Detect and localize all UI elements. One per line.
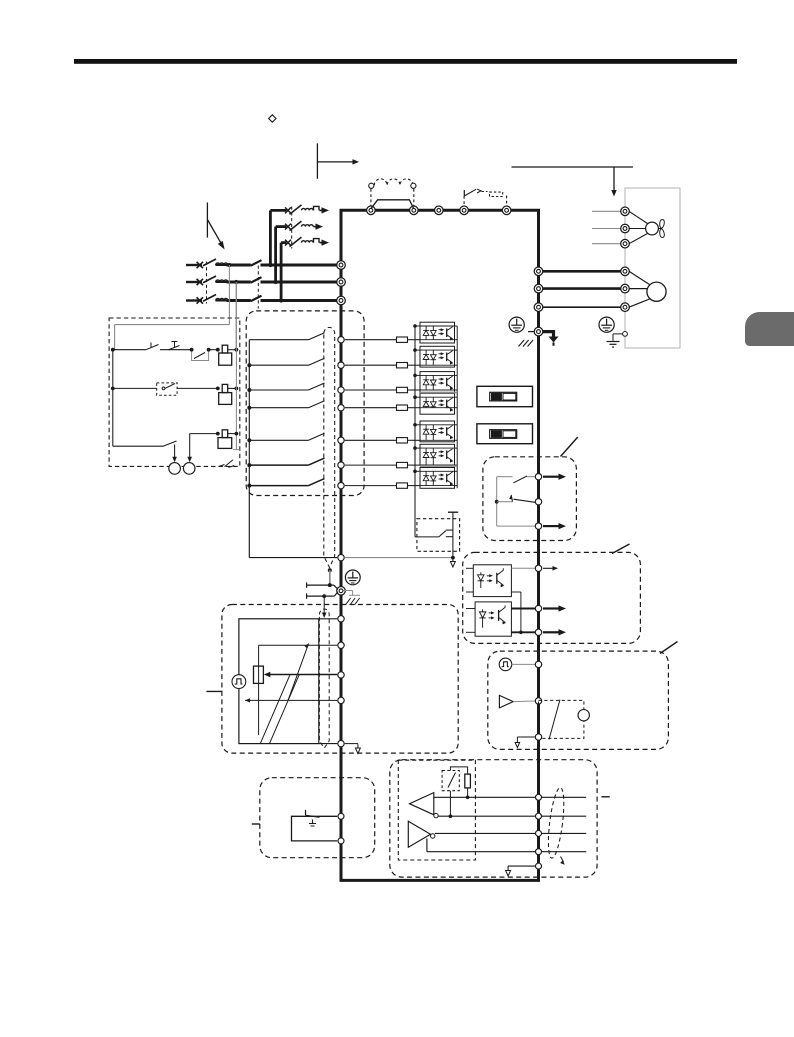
memobus leader [601, 796, 609, 798]
opto PC2 rail stubs [415, 349, 420, 351]
input resistor R6 [345, 464, 397, 466]
shield twisted pair [307, 584, 334, 586]
junction phase2 to control drop [234, 280, 238, 284]
opto PC4 rail stubs [415, 396, 420, 398]
terminal S2 [338, 362, 344, 368]
memobus comm dashed group box [390, 760, 597, 877]
fan supply stub wires [592, 210, 625, 212]
sequence row2 wire [113, 387, 157, 389]
opto PC5 rail stubs [415, 424, 420, 426]
pulse train input symbol [232, 675, 246, 689]
terminal S1 [338, 337, 344, 343]
drive ground screw symbol [509, 317, 524, 332]
safe disable leader [252, 823, 260, 825]
terminal +2 [410, 206, 419, 215]
analog leader line [206, 690, 222, 692]
photocoupler P2 wires [466, 608, 475, 610]
comm shield arrow [561, 857, 564, 863]
motor wire U [539, 270, 626, 273]
opto bias rail [414, 326, 416, 537]
branch 2 arrow [314, 226, 317, 228]
junction S7 rail [247, 484, 251, 488]
comm line R- [438, 815, 586, 817]
opto PC6 rail stubs [415, 447, 420, 449]
drive ground hatch [519, 340, 525, 347]
terminal HC [338, 813, 344, 819]
DIP switch S2 [477, 424, 533, 444]
phase L1 wire to drive terminal [261, 264, 338, 267]
terminal B1 [460, 206, 469, 215]
terminal S+ [536, 830, 542, 836]
motor enclosure [625, 188, 680, 348]
photocoupler output dashed group box [463, 552, 641, 643]
pulse monitor wire [512, 663, 535, 665]
motor ground screw symbol [599, 317, 614, 332]
phase L3 wire to drive terminal [261, 299, 338, 302]
braking resistor option leads [463, 196, 465, 206]
branch 1 arrow [320, 209, 323, 211]
terminal S4 [338, 405, 344, 411]
opto PC7 rail stubs [415, 470, 420, 472]
sequence holding contact [192, 352, 209, 361]
termination switch blade [448, 773, 456, 788]
pulse monitor symbol [499, 658, 512, 671]
shield terminal ground tail [344, 590, 353, 592]
digital input S3 wire [249, 389, 308, 391]
analog monitor buffer [499, 695, 513, 708]
drive terminal U/T1 [534, 267, 543, 276]
terminal S6 [338, 462, 344, 468]
callout leader long rule with down arrow [512, 166, 634, 168]
analog slash 1 [260, 675, 290, 744]
potentiometer wiper arrow [268, 674, 337, 676]
external sequence dashed box [109, 318, 240, 466]
phase L1 wire to contactor [227, 264, 251, 267]
drive terminal W/T3 [534, 303, 543, 312]
drive enclosure box [341, 210, 539, 880]
branch 1 coil [302, 208, 314, 210]
safe disable jumper link [305, 810, 307, 815]
branch 1 feed wire [269, 210, 272, 265]
relay MC arrow [543, 525, 559, 527]
sequence MC coil 3 [222, 430, 228, 438]
photocoupler P2 arrow [543, 607, 559, 609]
relay NC contact blade [495, 500, 499, 504]
safe disable jumper bracket [292, 816, 338, 841]
terminal T/L3 [337, 296, 346, 305]
phase L1 contactor blade [251, 260, 262, 265]
analog A3 wire [245, 698, 250, 702]
opto-coupler PC3 [420, 372, 455, 393]
opto stack divider gray B [420, 465, 457, 467]
terminal S7 [338, 482, 344, 488]
terminal AC2 [338, 740, 344, 746]
terminal R- [536, 813, 542, 819]
multi-function input dashed group box [246, 311, 364, 496]
opto-coupler PC4 [420, 393, 455, 414]
braking resistor thermal switch [463, 190, 465, 196]
digital input S7 wire [249, 485, 308, 487]
phase L3 contactor blade [251, 296, 262, 301]
MCCB gang dashed link [206, 262, 208, 304]
monitor output dashed group box [488, 651, 669, 749]
digital input S5 switch blade [309, 433, 325, 440]
callout leader MCCB diagonal arrow [206, 203, 208, 238]
terminal S5 [338, 437, 344, 443]
sequence coil rail [235, 282, 237, 450]
input resistor R2 [345, 364, 397, 366]
digital input S3 switch blade [309, 383, 325, 390]
opto PC3 rail stubs [415, 374, 420, 376]
branch 2 switch blade [290, 221, 302, 231]
sequence MC coil 1 [222, 345, 228, 353]
note marker diamond [269, 115, 276, 122]
callout leader T-arrow [316, 143, 318, 179]
terminal AM [535, 698, 541, 704]
sequence row3 wire [190, 433, 218, 435]
analog cable capsule [319, 609, 329, 748]
opto stack divider gray A [420, 392, 457, 394]
terminal S- [536, 849, 542, 855]
phase L2 contactor blade [251, 277, 262, 282]
termination wiring [450, 767, 467, 774]
frequency meter blade [549, 700, 560, 740]
motor wire V [539, 287, 626, 290]
photocoupler P1 wires [466, 567, 473, 569]
branch gang dashed link [291, 207, 293, 249]
relay output leader [561, 437, 578, 457]
terminal R+ [536, 794, 542, 800]
digital input S6 wire [249, 464, 308, 466]
phase L3 wire to contactor [227, 299, 251, 302]
comm send buffer [408, 821, 430, 847]
relay NO contact blade [514, 476, 528, 483]
photocoupler P1 unit [473, 565, 511, 597]
phase L1 reactor coil [216, 263, 228, 265]
terminal MA [535, 474, 541, 480]
24V supply tap [448, 511, 458, 513]
control power drop wire from phase2 [235, 282, 237, 350]
junction phase3 to branch feed [279, 298, 283, 302]
motor terminal 2 [621, 284, 630, 293]
DC reactor option coil [374, 179, 413, 185]
branch 2 coil [302, 225, 314, 227]
termination resistor [465, 774, 471, 788]
monitor output leader [660, 642, 678, 654]
terminal PC [535, 629, 541, 635]
sequence MC coil 2 [222, 384, 228, 392]
junction S2 rail [247, 363, 251, 367]
motor ground wire [623, 332, 628, 337]
branch 3 fuse x-mark [285, 240, 291, 246]
analog block frame [239, 619, 319, 744]
terminal IG [536, 863, 542, 869]
digital input S1 switch blade [309, 333, 325, 340]
DIP switch S1 [477, 386, 533, 406]
DC reactor option dashed leads [370, 189, 372, 206]
photocoupler P2 unit [475, 602, 511, 636]
analog common bottom wire [319, 743, 337, 745]
terminal P1 [535, 565, 541, 571]
comm cable shield ellipse [545, 787, 566, 859]
jumper bar +1/+2 [371, 200, 414, 209]
thermal relay contact dashed box [157, 383, 177, 395]
phase L3 reactor coil [216, 299, 228, 301]
comm ground wire [508, 865, 535, 867]
terminal AC monitor [535, 734, 541, 740]
junction phase1 to control drop [227, 263, 231, 267]
terminal minus [435, 206, 444, 215]
analog slash 2 [270, 675, 300, 744]
comm receive buffer [410, 793, 434, 815]
fan terminal 1 [621, 207, 630, 216]
phase L2 input wire [186, 281, 202, 283]
drive terminal V/T2 [534, 284, 543, 293]
analog input dashed group box [222, 605, 458, 754]
input cable shield capsule [324, 327, 335, 567]
input resistor R4 [345, 407, 397, 409]
SC wire inside drive [345, 557, 453, 559]
branch 2 fuse x-mark [285, 224, 291, 230]
monitor common wire [517, 736, 535, 738]
input resistor R3 [345, 389, 397, 391]
branch 1 pulse hump [314, 206, 320, 210]
sink-source select dashed box [417, 519, 460, 552]
motor terminal 3 [621, 303, 630, 312]
potentiometer body [254, 666, 264, 683]
relay MA arrow [543, 476, 559, 478]
relay output dashed group box [483, 457, 577, 541]
terminal MP [535, 661, 541, 667]
opto output rail [456, 326, 458, 488]
DC reactor lead circles [369, 183, 374, 188]
input resistor R1 [345, 339, 397, 341]
analog A1 wire [259, 644, 338, 646]
sequence off button [146, 345, 159, 350]
control power drop wire from phase1 [228, 265, 230, 325]
terminal A1 [338, 642, 344, 648]
junction S4 rail [247, 406, 251, 410]
terminal S3 [338, 387, 344, 393]
digital input S6 switch blade [309, 458, 325, 465]
termination switch dashed box [442, 771, 459, 791]
digital input SC common wire [249, 557, 337, 559]
run indicator lamp 2 [183, 463, 195, 475]
analog shield drain [345, 743, 358, 745]
digital input S4 wire [249, 407, 308, 409]
input resistor R5 [345, 439, 397, 441]
digital input common rail [248, 340, 250, 558]
comm line S+ [435, 832, 586, 834]
branch 1 fuse x-mark [285, 207, 291, 213]
contactor gang dashed link [257, 266, 259, 309]
analog slash 3 [288, 644, 309, 701]
branch 3 coil [302, 241, 314, 243]
branch 3 arrow [320, 242, 323, 244]
junction phase1 to branch feed [268, 263, 272, 267]
frequency meter dashed box [539, 700, 584, 738]
sequence lamp branch [113, 445, 163, 447]
comm interface dashed box [398, 760, 475, 860]
digital input S1 wire [249, 339, 308, 341]
terminal A2 [338, 672, 344, 678]
motor terminal 1 [621, 267, 630, 276]
terminal H1 [338, 838, 344, 844]
run indicator lamp 1 [169, 463, 181, 475]
branch 3 pulse hump [314, 239, 320, 243]
opto PC1 rail stubs [415, 325, 420, 327]
fan terminal 3 [621, 239, 630, 248]
terminal B2 [502, 206, 511, 215]
junction S6 rail [247, 463, 251, 467]
potentiometer vertical wire [258, 645, 260, 735]
digital input S5 wire [249, 439, 308, 441]
opto-coupler PC1 [420, 322, 455, 343]
motor ground electrode [607, 341, 620, 343]
title rule bar [74, 59, 737, 64]
junction phase2 to branch feed [274, 280, 278, 284]
digital input S4 switch blade [309, 401, 325, 408]
terminal +V [338, 616, 344, 622]
drive ground terminal [534, 327, 543, 336]
phase L2 wire to contactor [227, 281, 251, 284]
terminal MB [535, 499, 541, 505]
page side tab [745, 312, 794, 346]
sink-source open arrow [450, 562, 455, 568]
comm line R+ [434, 796, 586, 798]
shield ground hatch [346, 598, 351, 605]
branch 1 switch blade [290, 205, 302, 215]
terminal +1 [367, 206, 376, 215]
digital input S2 wire [249, 364, 308, 366]
junction S5 rail [247, 438, 251, 442]
terminal S/L2 [337, 278, 346, 287]
fan terminal 2 [621, 224, 630, 233]
terminal R/L1 [337, 261, 346, 270]
chassis ground bold wire [543, 332, 554, 337]
terminal SC [338, 554, 344, 560]
photocoupler PC arrow [543, 631, 559, 633]
sequence row1 wire [113, 349, 146, 351]
sink-source wire and blade [415, 536, 439, 538]
digital input S7 switch blade [309, 479, 325, 486]
sequence on button [169, 346, 180, 350]
terminal MC [535, 523, 541, 529]
opto-coupler PC6 [420, 444, 455, 465]
phase L2 reactor coil [216, 280, 228, 282]
photocoupler P1 arrow [543, 567, 553, 569]
branch 2 feed wire [274, 227, 277, 282]
comm line S- [427, 851, 586, 853]
photocoupler output leader [612, 544, 630, 554]
MC auxiliary contact symbol [219, 465, 225, 467]
braking resistor dashed body [490, 192, 503, 196]
opto-coupler PC5 [420, 421, 455, 442]
motor body [629, 271, 650, 284]
branch 3 switch blade [290, 237, 302, 247]
terminal P2 [535, 605, 541, 611]
frequency meter instrument [578, 710, 589, 721]
branch 3 feed wire [280, 243, 283, 301]
terminal AC [338, 697, 344, 703]
relay contact frame [496, 477, 498, 526]
input resistor R7 [345, 485, 397, 487]
drive ground wire lead [528, 331, 534, 333]
opto-coupler PC7 [420, 468, 455, 489]
phase L2 wire to drive terminal [261, 281, 338, 284]
analog +V wire [319, 618, 337, 620]
opto-coupler PC2 [420, 346, 455, 367]
junction S3 rail [247, 388, 251, 392]
motor wire W [539, 306, 626, 308]
digital input S2 switch blade [309, 358, 325, 365]
phase L3 input wire [186, 299, 202, 301]
input cable shield drain wire [328, 568, 332, 572]
shield earth symbol [345, 570, 360, 585]
safe disable dashed group box [260, 778, 375, 858]
sequence left rail [112, 350, 114, 447]
shield terminal [337, 587, 346, 596]
cooling fan motor [629, 211, 648, 223]
phase L1 input wire [186, 264, 202, 266]
shield drop arrow to analog block [322, 594, 326, 598]
